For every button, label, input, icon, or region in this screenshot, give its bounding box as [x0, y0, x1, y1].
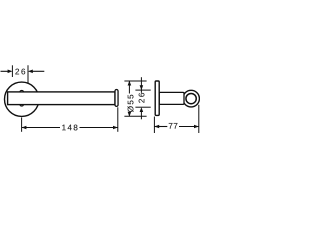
- bar (front view): [8, 92, 115, 105]
- dim 26 (side) ext line bottom: [135, 106, 150, 108]
- dim O55 line bottom segment: [128, 113, 130, 117]
- dim 26 (front) ext line left: [11, 65, 13, 77]
- rosette circle (front view): [5, 82, 39, 116]
- dim 77 arrow left: [154, 125, 159, 129]
- dim 77 line right segment: [179, 126, 199, 128]
- dim O55 line top segment: [128, 81, 130, 94]
- bar ring outer (side view): [183, 90, 200, 107]
- dim 26 (side) line upper: [140, 77, 142, 93]
- dim 148 ext line right: [117, 107, 119, 132]
- screw bump top: [20, 90, 24, 91]
- dim O55 ext line top: [124, 80, 146, 82]
- dim 148 arrow right: [113, 126, 118, 130]
- dim 77 arrow right: [194, 125, 199, 129]
- dim 26 (side) text: [139, 93, 145, 103]
- dim 77 text: [169, 123, 178, 129]
- dim 148 text: [62, 125, 77, 131]
- stem (side view): [159, 92, 184, 104]
- dim 26 (front) leader right: [32, 70, 44, 72]
- dim 77 ext line right: [198, 105, 200, 133]
- wall plate (side view): [155, 81, 159, 115]
- dim O55 text: [127, 95, 133, 112]
- dim 26 (front) text: [15, 69, 25, 75]
- dim 148 ext line left: [21, 118, 23, 132]
- dim 26 (front) arrow right: [28, 70, 33, 74]
- dim 26 (side) arrow bottom: [140, 107, 144, 112]
- end cap (front view): [115, 90, 118, 107]
- dim O55 arrow top: [128, 81, 132, 86]
- dim 26 (side) ext line top: [135, 89, 150, 91]
- dim 26 (front) arrow left: [8, 70, 13, 74]
- dim 148 line left segment: [22, 127, 60, 129]
- dim 77 line left segment: [154, 126, 167, 128]
- dim 148 line right segment: [80, 127, 118, 129]
- dim 26 (side) line lower: [140, 109, 142, 119]
- screw bump bottom: [20, 105, 24, 106]
- dim 26 (front) leader left: [1, 70, 9, 72]
- dim O55 ext line bottom: [124, 115, 146, 117]
- dim 148 arrow left: [22, 126, 27, 130]
- dim 26 (side) arrow top: [140, 85, 144, 90]
- dim 26 (front) ext line right: [27, 65, 29, 84]
- dim 77 ext line left: [153, 117, 155, 134]
- bar ring inner (side view): [186, 93, 196, 103]
- dim O55 arrow bottom: [128, 112, 132, 117]
